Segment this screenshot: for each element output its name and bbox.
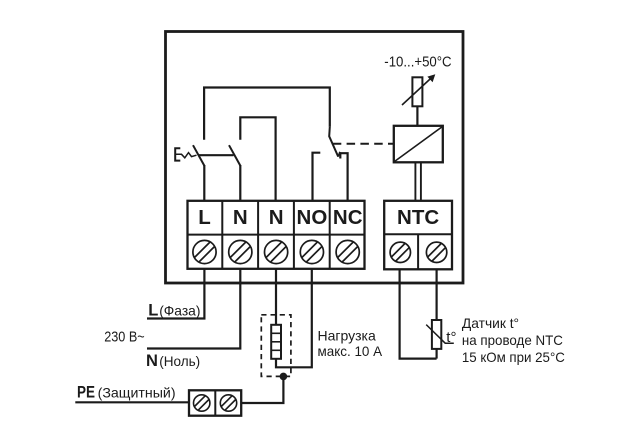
wire L to mains (147, 269, 204, 319)
svg-text:NO: NO (297, 206, 328, 229)
screw terminal NTC2 (426, 242, 446, 262)
wire inner bus N (240, 117, 275, 201)
wire load to NO (276, 269, 312, 368)
label t sensor (446, 329, 456, 346)
wire NTC1 to sensor (400, 269, 437, 358)
svg-text:N: N (146, 352, 158, 370)
label N neutral (146, 352, 200, 370)
svg-text:PE: PE (77, 384, 95, 402)
wire PE to load enclosure (242, 377, 284, 403)
dashed actuation link to thermostat (333, 143, 394, 145)
thermistor RK1 (426, 320, 454, 349)
label load rating (318, 327, 383, 359)
relay changeover contact (329, 127, 340, 157)
terminal block X2 NTC body (384, 201, 453, 269)
heating element EK1 (271, 325, 281, 359)
label sensor description (462, 315, 565, 365)
svg-text:N: N (233, 206, 248, 229)
wire NTC2 to sensor (436, 269, 438, 358)
terminal label NO (297, 206, 328, 229)
device outline (166, 32, 464, 284)
wire N to mains (147, 269, 240, 349)
svg-text:t°: t° (446, 329, 456, 346)
screw terminal L (193, 240, 216, 263)
screw terminal NO (300, 240, 323, 263)
svg-text:(Фаза): (Фаза) (159, 302, 200, 318)
label PE protective (77, 384, 176, 402)
svg-text:NC: NC (333, 206, 363, 229)
screw terminal PE1 (194, 395, 210, 411)
contact NC stationary (340, 153, 347, 201)
label temperature range (384, 54, 451, 71)
wire pair U1 to NTC terminals (415, 162, 421, 200)
svg-text:Нагрузка: Нагрузка (318, 327, 376, 343)
terminal block X1 body (187, 201, 365, 269)
switch S1 pole L (193, 145, 205, 201)
svg-text:15 кОм при 25°С: 15 кОм при 25°С (462, 349, 565, 365)
svg-text:на проводе NTC: на проводе NTC (462, 332, 563, 348)
screw terminal NC (336, 240, 359, 263)
load enclosure dashed box (261, 315, 291, 377)
terminal block X3 PE (189, 390, 241, 415)
svg-text:(Защитный): (Защитный) (98, 385, 176, 401)
svg-text:-10...+50°C: -10...+50°C (384, 54, 451, 71)
contact NO stationary (313, 153, 321, 201)
terminal label NC (333, 206, 363, 229)
label L phase (148, 301, 200, 319)
terminal label NTC (397, 206, 439, 229)
mechanical link of S1-S2 (198, 154, 234, 156)
label 230V (104, 328, 145, 345)
wire PE in (75, 401, 188, 403)
svg-text:Датчик t°: Датчик t° (462, 315, 519, 331)
screw terminal N2 (265, 240, 288, 263)
svg-text:L: L (148, 301, 158, 319)
screw terminal NTC1 (390, 242, 410, 262)
switch S2 pole N (229, 145, 241, 201)
screw terminal N (229, 240, 252, 263)
svg-text:NTC: NTC (397, 206, 439, 229)
wire top bus L (204, 88, 330, 140)
svg-text:N: N (269, 206, 284, 229)
svg-text:(Ноль): (Ноль) (159, 353, 200, 369)
terminal label N2 (269, 206, 284, 229)
wire N2 to load (275, 269, 277, 325)
svg-text:L: L (198, 206, 211, 229)
terminal label N (233, 206, 248, 229)
svg-text:макс. 10 А: макс. 10 А (318, 343, 383, 359)
thermostat unit U1 (394, 126, 443, 163)
terminal label L (198, 206, 211, 229)
svg-text:230 В~: 230 В~ (104, 328, 145, 345)
manual actuator bracket (175, 148, 196, 160)
setpoint trimmer RP1 (402, 74, 435, 126)
junction PE-enclosure (280, 373, 288, 381)
screw terminal PE2 (220, 395, 236, 411)
